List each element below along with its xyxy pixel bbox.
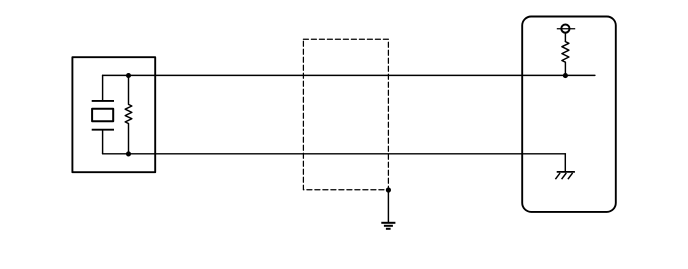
wire top bus <box>103 74 595 76</box>
node input junction <box>563 73 568 78</box>
shield dashed box <box>303 39 388 190</box>
node shield junction <box>386 187 391 192</box>
wire bottom bus <box>103 153 566 155</box>
wire crystal bottom lead <box>102 130 104 154</box>
chassis ground <box>555 172 575 179</box>
node bottom junction <box>126 151 131 156</box>
wire crystal top lead <box>102 75 104 101</box>
crystal Y1 <box>92 101 114 130</box>
wire bottom to chassis ground <box>564 154 566 172</box>
resistor R2 (pull-up) <box>562 42 569 76</box>
resistor R1 (parallel load resistor) <box>125 75 132 153</box>
device rounded box <box>522 17 616 212</box>
earth ground <box>381 223 395 229</box>
terminal T1 supply circle <box>557 25 575 33</box>
wire terminal to resistor <box>564 33 566 42</box>
node top junction <box>126 73 131 78</box>
oscillator module box <box>72 57 155 172</box>
wire shield to ground <box>387 190 389 222</box>
